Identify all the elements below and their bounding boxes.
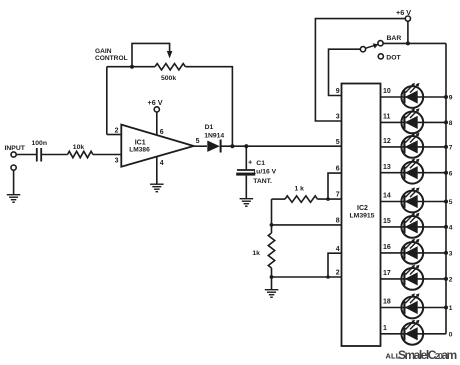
svg-text:100n: 100n: [32, 140, 48, 147]
wire: 10k to op-amp pin 3: [93, 154, 121, 156]
ground (op-amp pin 4): [150, 184, 164, 185]
node: bus junction 2: [444, 277, 448, 281]
node: bus junction 4: [444, 225, 448, 229]
node: pin6/pin7 junction: [326, 197, 330, 201]
LED 2: [401, 265, 423, 290]
wire: LED 0 to bus: [423, 333, 446, 335]
svg-text:3: 3: [336, 114, 340, 121]
svg-text:IC1: IC1: [135, 139, 146, 146]
svg-text:8: 8: [336, 218, 340, 225]
wire: pin 17 to LED: [381, 278, 402, 280]
svg-text:1: 1: [383, 325, 387, 332]
node: pin4/pin2 junction: [326, 275, 330, 279]
LED 6: [401, 159, 423, 184]
node: bus junction 3: [444, 251, 448, 255]
svg-text:6: 6: [160, 129, 164, 136]
LED 3: [401, 239, 423, 264]
wire: LED 9 to bus: [423, 96, 446, 98]
wire: pin 15 to LED: [381, 226, 402, 228]
svg-text:1k: 1k: [252, 250, 260, 257]
wire: LED 4 to bus: [423, 226, 446, 228]
svg-text:2: 2: [115, 128, 119, 135]
wire: pin 16 to LED: [381, 252, 402, 254]
svg-text:7: 7: [336, 192, 340, 199]
svg-text:+: +: [248, 158, 253, 167]
node: bus junction 7: [444, 145, 448, 149]
wire: gain loop to pot: [107, 66, 132, 68]
wire: gain loop vertical: [106, 67, 108, 135]
svg-text:13: 13: [383, 164, 391, 171]
svg-text:10: 10: [383, 88, 391, 95]
node: pot left junction: [130, 65, 134, 69]
wire: pin 18 to LED: [381, 307, 402, 309]
svg-text:5: 5: [336, 139, 340, 146]
svg-text:6: 6: [336, 166, 340, 173]
capacitor C1 1u/16V tant: [245, 146, 247, 169]
wire: pin 12 to LED: [381, 146, 402, 148]
wire: pin 10 to LED: [381, 96, 402, 98]
svg-text:10k: 10k: [73, 144, 85, 151]
svg-text:9: 9: [336, 88, 340, 95]
wire: op-amp output to D1: [194, 145, 207, 147]
svg-text:500k: 500k: [161, 75, 176, 82]
node: ground junction: [270, 275, 274, 279]
wire: IC2 pin 4 down to pin 2 net: [328, 253, 342, 277]
svg-text:+6 V: +6 V: [148, 98, 163, 107]
svg-text:5: 5: [196, 138, 200, 145]
node: pot feedback junction: [230, 144, 234, 148]
svg-text:0: 0: [449, 331, 453, 338]
switch lever: [365, 45, 375, 48]
wire: IC2 pin 8: [272, 224, 342, 226]
node: bus junction 5: [444, 200, 448, 204]
svg-text:1u/16 V: 1u/16 V: [252, 169, 276, 176]
switch pole (mode select): [360, 47, 365, 52]
svg-text:8: 8: [449, 120, 453, 127]
svg-text:SmalelC20am: SmalelC20am: [398, 348, 457, 362]
wire: LED 5 to bus: [423, 201, 446, 203]
wire: IC2 pin 7: [318, 198, 342, 200]
svg-text:IC2: IC2: [357, 205, 368, 212]
wire: LED anode bus: [445, 43, 447, 333]
wire: LED 6 to bus: [423, 172, 446, 174]
LED 0: [401, 320, 423, 345]
svg-text:7: 7: [449, 145, 453, 152]
svg-text:1: 1: [449, 305, 453, 312]
svg-text:15: 15: [383, 218, 391, 225]
svg-text:1N914: 1N914: [204, 132, 224, 139]
ground (C1): [240, 198, 254, 199]
wire: to ground: [271, 277, 273, 289]
op-amp U1 IC1 LM386: [121, 125, 193, 167]
wire: pin 1 to LED: [381, 333, 402, 335]
svg-text:DOT: DOT: [386, 55, 401, 62]
wire: op-amp pin 2: [107, 134, 122, 136]
LED 5: [401, 187, 423, 212]
svg-text:LM3915: LM3915: [350, 213, 375, 220]
wire: 1k down to pin 8 net: [271, 199, 273, 225]
svg-text:5: 5: [449, 199, 453, 206]
svg-text:C1: C1: [256, 160, 265, 167]
wire: LED 1 to bus: [423, 307, 446, 309]
svg-text:2: 2: [449, 277, 453, 284]
svg-text:CONTROL: CONTROL: [95, 55, 128, 62]
svg-text:TANT.: TANT.: [253, 178, 272, 185]
wire: pin 6 stem: [156, 112, 158, 135]
wire: LED 2 to bus: [423, 278, 446, 280]
wire: pot right to output: [185, 67, 232, 147]
svg-text:3: 3: [115, 157, 119, 164]
wire: input signal line: [16, 154, 36, 156]
wire: D1 to IC2 pin 5: [221, 145, 342, 147]
svg-text:GAIN: GAIN: [95, 48, 112, 55]
wire: pin 4 stem: [156, 156, 158, 183]
wire: pin 13 to LED: [381, 172, 402, 174]
node: C1 junction: [244, 144, 248, 148]
svg-text:11: 11: [383, 114, 391, 121]
wire: pin 11 to LED: [381, 121, 402, 123]
wire: pot wiper arm: [132, 43, 170, 66]
svg-text:16: 16: [383, 244, 391, 251]
svg-text:3: 3: [449, 251, 453, 258]
svg-text:17: 17: [383, 270, 391, 277]
svg-text:INPUT: INPUT: [5, 145, 26, 152]
wire: LED 7 to bus: [423, 146, 446, 148]
input terminal (ground side): [11, 165, 16, 170]
LED 1: [401, 293, 423, 318]
svg-text:4: 4: [336, 246, 340, 253]
LED 9: [401, 83, 423, 108]
ground (divider): [265, 289, 279, 290]
node: bus junction 8: [444, 120, 448, 124]
wire: IC2 pin 3 to +6V: [315, 19, 405, 121]
wire: pin 14 to LED: [381, 201, 402, 203]
node: pin 8 junction: [270, 223, 274, 227]
svg-text:D1: D1: [205, 124, 214, 131]
node: bus junction 1: [444, 306, 448, 310]
svg-text:6: 6: [449, 170, 453, 177]
svg-text:LM386: LM386: [129, 147, 150, 154]
wire: IC2 pin 9 to switch pole: [329, 49, 361, 95]
node: bus junction 6: [444, 171, 448, 175]
svg-text:18: 18: [383, 299, 391, 306]
wire: +6V down to BAR junction: [407, 21, 409, 43]
ground (input): [7, 194, 20, 195]
svg-text:1 k: 1 k: [295, 185, 305, 192]
wire: BAR line to LED bus: [383, 42, 446, 44]
node: bus junction 9: [444, 95, 448, 99]
wire: input ground stem: [13, 170, 15, 194]
svg-text:4: 4: [160, 160, 164, 167]
wire: 100n to 10k: [41, 154, 67, 156]
wire: IC2 pin 6 down to pin 7 net: [328, 173, 342, 199]
potentiometer 500k: [132, 66, 155, 68]
svg-text:4: 4: [449, 225, 453, 232]
LED 4: [401, 213, 423, 238]
IC U2 IC2 LM3915: [342, 84, 381, 347]
wire: LED 3 to bus: [423, 252, 446, 254]
svg-text:14: 14: [383, 193, 391, 200]
wire: LED 8 to bus: [423, 121, 446, 123]
svg-text:2: 2: [336, 270, 340, 277]
svg-text:BAR: BAR: [387, 35, 402, 42]
svg-text:9: 9: [449, 95, 453, 102]
LED 7: [401, 133, 423, 158]
wire: IC2 pin 2: [272, 276, 342, 278]
node: BAR junction: [406, 41, 410, 45]
LED 8: [401, 108, 423, 133]
svg-text:12: 12: [383, 138, 391, 145]
